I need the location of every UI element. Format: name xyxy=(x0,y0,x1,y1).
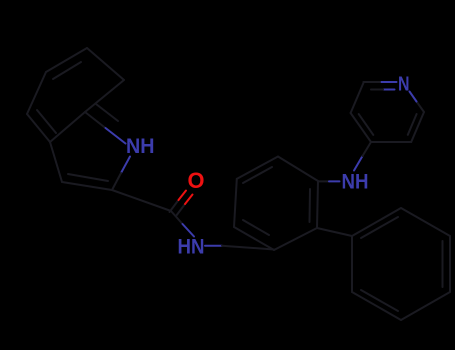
wire C2-C3 xyxy=(62,182,112,190)
wire C2 to carbonyl C xyxy=(112,190,171,211)
wire pyridine C5-C6 xyxy=(411,112,424,142)
bond ring A D to phenyl ring B xyxy=(317,228,352,236)
wire C6-C7 xyxy=(87,48,124,80)
carbonyl C=O double bond line 1 (red half near O) xyxy=(170,200,179,212)
svg-text:O: O xyxy=(188,168,205,193)
wire C5-C6 inner double xyxy=(53,62,81,79)
wire C3a-C4 inner double xyxy=(37,110,56,133)
wire B UL-LL xyxy=(351,236,353,292)
wire C7-C7a xyxy=(85,80,124,112)
wire A D-V3 inner double xyxy=(309,189,312,222)
wire C3-C3a xyxy=(50,142,62,182)
wire A D-V3 xyxy=(317,181,318,228)
bond N1-C2 of indole (blue half near N) xyxy=(121,157,130,174)
bond pyridine N1=C2 inner double (blue half near N) xyxy=(383,89,395,91)
wire B LR-UR xyxy=(449,236,451,292)
wire C7a-C3a fused edge xyxy=(50,112,85,142)
wire pyridine C3-C4 inner double xyxy=(359,114,374,135)
wire B LL-B inner double xyxy=(361,290,398,311)
bond carbonyl C to amide N (blue half near N) xyxy=(171,211,183,224)
bond aryl N to pyridine C4 (blue half near N) xyxy=(354,156,363,171)
svg-text:HN: HN xyxy=(178,236,205,259)
bond amide N to ring A V1 (blue half near N) xyxy=(205,245,222,247)
bond pyridine C6-N1 (blue half near N) xyxy=(417,102,425,113)
svg-text:NH: NH xyxy=(126,135,155,158)
wire A L-D2 xyxy=(234,227,274,250)
wire A L-D2 inner double xyxy=(243,220,269,235)
wire B T-UL xyxy=(352,208,401,236)
bond N1-C7a of indole (blue half near N) xyxy=(85,112,106,128)
wire pyridine C5-C6 inner double xyxy=(408,114,417,135)
wire A UL-L xyxy=(234,179,237,227)
wire B T-UL inner double xyxy=(361,217,398,238)
wire B LL-B xyxy=(352,292,401,320)
wire C4-C5 xyxy=(27,72,46,114)
carbonyl C=O double bond line 2 (red half near O) xyxy=(176,204,185,216)
wire pyridine C3-C4 xyxy=(351,113,371,142)
phenyl ring B xyxy=(352,208,450,320)
wire A U-UL xyxy=(237,157,278,179)
wire pyridine C2-C3 xyxy=(351,83,364,113)
wire A V3-U xyxy=(278,157,318,182)
wire C3a-C4 xyxy=(27,114,50,142)
wire B UR-T xyxy=(401,208,450,236)
wire C2-C3 inner double xyxy=(68,174,108,181)
wire B B-LR xyxy=(401,292,450,320)
wire B LR-UR inner double xyxy=(442,241,444,287)
svg-text:N: N xyxy=(398,72,410,95)
wire C5-C6 xyxy=(46,48,87,72)
wire A U-UL inner double xyxy=(243,167,272,183)
svg-text:NH: NH xyxy=(342,169,369,193)
bond pyridine N1=C2 outer (blue half near N) xyxy=(380,81,397,83)
bond ring A V3 to aryl NH (blue half near N) xyxy=(318,180,329,182)
central benzene ring A xyxy=(234,157,318,251)
wire A D2-D xyxy=(274,228,317,250)
indole benzo ring xyxy=(27,48,124,190)
wire C7a=N1 inner double line xyxy=(96,104,118,121)
wire pyridine C4-C5 xyxy=(371,141,411,143)
